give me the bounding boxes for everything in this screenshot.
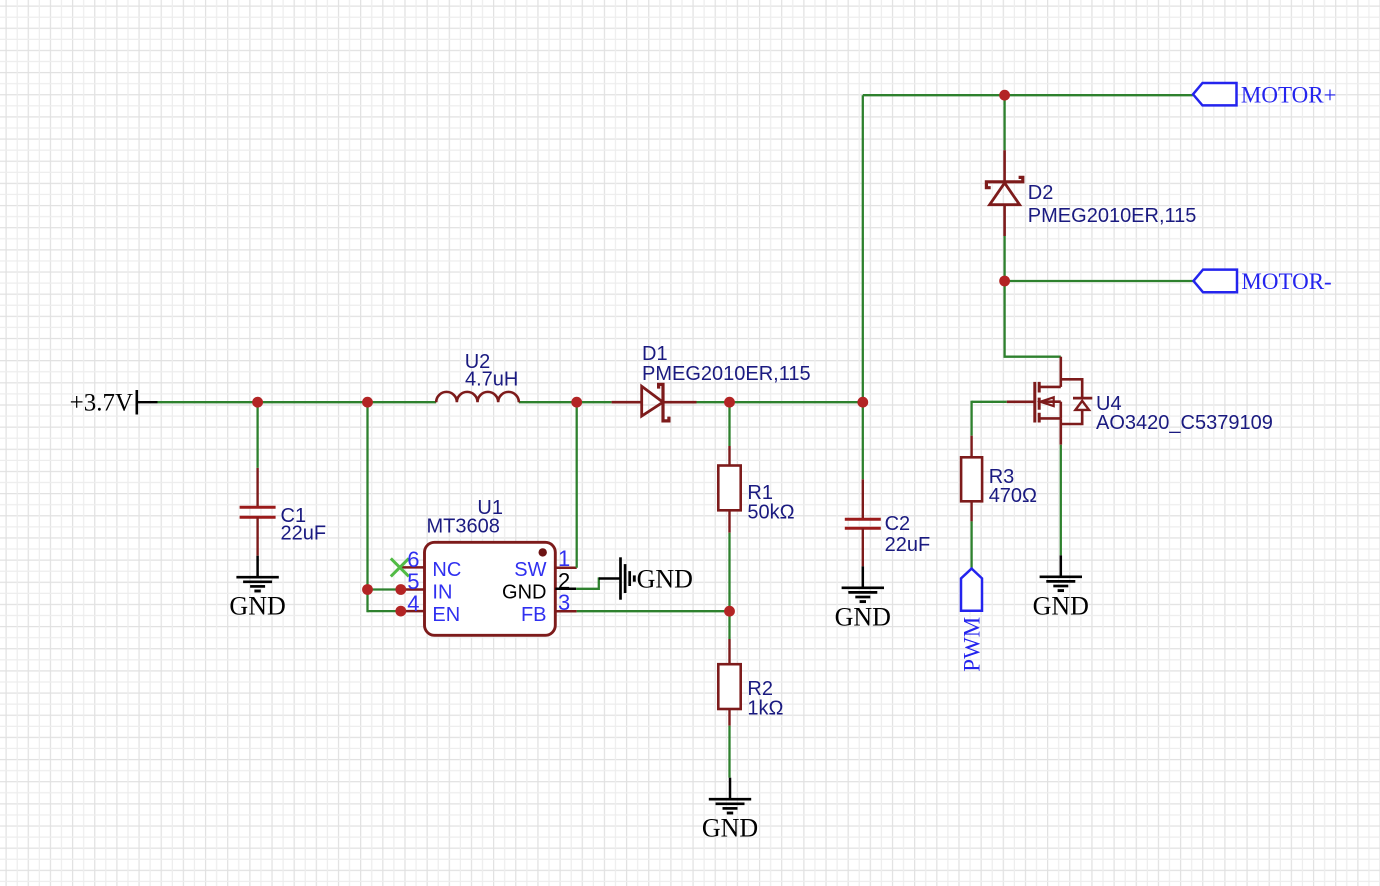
resistor R1 50k bbox=[718, 446, 740, 533]
svg-text:MT3608: MT3608 bbox=[427, 516, 500, 538]
wire VOUT to C2 bbox=[862, 402, 864, 479]
svg-text:22uF: 22uF bbox=[281, 523, 327, 545]
svg-text:SW: SW bbox=[514, 559, 546, 581]
svg-text:PWM: PWM bbox=[960, 617, 985, 672]
ground GND under C2 bbox=[835, 566, 891, 631]
net flag MOTOR- bbox=[1194, 269, 1332, 294]
svg-text:FB: FB bbox=[521, 604, 547, 626]
wire VOUT riser to top rail bbox=[862, 95, 864, 402]
svg-text:+3.7V: +3.7V bbox=[70, 390, 133, 417]
wire R1 to FB node bbox=[728, 533, 730, 612]
svg-text:3: 3 bbox=[558, 590, 570, 615]
svg-text:GND: GND bbox=[229, 592, 285, 621]
svg-text:EN: EN bbox=[432, 604, 460, 626]
pin 2 GND bbox=[555, 588, 576, 591]
svg-text:IN: IN bbox=[432, 581, 452, 603]
wire riser to U1 IN/EN bbox=[366, 402, 368, 612]
junction IN riser bbox=[362, 584, 373, 595]
junction U1 riser tap bbox=[362, 397, 373, 408]
pin 5 IN bbox=[400, 588, 425, 591]
wire +3.7V rail to L1 bbox=[158, 401, 437, 403]
svg-text:NC: NC bbox=[432, 559, 461, 581]
no-connect X pin 6 bbox=[391, 558, 409, 576]
wire R3 top bbox=[970, 401, 972, 436]
svg-text:MOTOR+: MOTOR+ bbox=[1241, 83, 1337, 108]
junction MOTOR+ node bbox=[999, 90, 1010, 101]
net flag PWM bbox=[960, 569, 985, 672]
junction SW tap bbox=[571, 397, 582, 408]
wire pin2 to GND flag bbox=[576, 579, 600, 589]
wire D1 cathode to C2/VOUT node bbox=[697, 401, 863, 403]
wire gate to R3 bbox=[972, 401, 1007, 403]
wire inductor to D1 bbox=[519, 401, 612, 403]
wire FB node to R2 bbox=[728, 611, 730, 639]
inductor U2 4.7uH bbox=[436, 392, 519, 402]
ground GND under U4 bbox=[1033, 555, 1089, 620]
wire to MOTOR- flag bbox=[1005, 280, 1194, 282]
svg-text:50kΩ: 50kΩ bbox=[747, 502, 794, 524]
junction pin 5 bbox=[395, 584, 406, 595]
svg-text:C2: C2 bbox=[885, 513, 911, 535]
diode D2 schottky bbox=[986, 150, 1022, 236]
power flag +3.7V bbox=[70, 390, 158, 417]
ground flag GND (pin 2) bbox=[599, 557, 693, 599]
junction VOUT node bbox=[857, 397, 868, 408]
wire C1 tap bbox=[256, 402, 258, 468]
wire MOTOR+ to D2 bbox=[1003, 95, 1005, 150]
pin 6 NC bbox=[400, 566, 425, 569]
svg-text:4.7uH: 4.7uH bbox=[465, 369, 518, 391]
wire to pin 5 IN bbox=[368, 588, 401, 590]
junction FB node bbox=[724, 606, 735, 617]
junction MOTOR- node bbox=[999, 276, 1010, 287]
transistor U4 AO3420 NMOS bbox=[1007, 357, 1093, 445]
capacitor C2 bbox=[845, 479, 881, 566]
wire D2 to MOTOR- node bbox=[1003, 236, 1005, 281]
junction R1 tap bbox=[724, 397, 735, 408]
svg-text:AO3420_C5379109: AO3420_C5379109 bbox=[1096, 412, 1273, 434]
svg-text:1: 1 bbox=[558, 546, 570, 571]
ground GND under C1 bbox=[229, 556, 285, 621]
svg-text:PMEG2010ER,115: PMEG2010ER,115 bbox=[642, 363, 811, 385]
wire MOTOR- node to U4 drain bbox=[1005, 281, 1061, 357]
capacitor C1 bbox=[240, 468, 276, 556]
pin 1 indicator dot bbox=[539, 548, 547, 556]
pin 4 EN bbox=[400, 610, 425, 613]
wire SW to inductor node bbox=[576, 402, 578, 568]
diode D1 schottky bbox=[612, 384, 697, 421]
svg-text:GND: GND bbox=[702, 814, 758, 843]
svg-text:MOTOR-: MOTOR- bbox=[1241, 269, 1331, 294]
resistor R3 470 bbox=[961, 436, 982, 522]
svg-text:GND: GND bbox=[1033, 591, 1089, 620]
wire VOUT to R1 bbox=[728, 402, 730, 446]
svg-text:D1: D1 bbox=[642, 343, 668, 365]
junction C1 tap bbox=[252, 397, 263, 408]
svg-text:22uF: 22uF bbox=[885, 534, 931, 556]
op-amp U1 MT3608 body bbox=[425, 542, 556, 635]
svg-text:GND: GND bbox=[637, 564, 693, 593]
svg-text:D2: D2 bbox=[1028, 182, 1054, 204]
pin 3 FB bbox=[555, 610, 576, 613]
wire FB to divider bbox=[577, 610, 730, 612]
svg-text:1kΩ: 1kΩ bbox=[747, 698, 783, 720]
wire to pin 4 EN bbox=[368, 610, 401, 612]
svg-text:GND: GND bbox=[835, 602, 891, 631]
svg-text:GND: GND bbox=[502, 581, 546, 603]
net flag MOTOR+ bbox=[1193, 83, 1337, 108]
svg-text:470Ω: 470Ω bbox=[989, 485, 1037, 507]
resistor R2 1k bbox=[718, 639, 740, 726]
wire top rail to MOTOR+ bbox=[863, 94, 1193, 96]
wire U4 source to ground bbox=[1060, 445, 1062, 556]
svg-text:4: 4 bbox=[407, 591, 419, 616]
wire R2 to ground bbox=[728, 726, 730, 778]
pin 1 SW bbox=[555, 567, 576, 570]
ground GND under R2 bbox=[702, 778, 758, 843]
wire R3 to PWM flag bbox=[970, 521, 972, 568]
junction pin 4 bbox=[395, 606, 406, 617]
svg-text:PMEG2010ER,115: PMEG2010ER,115 bbox=[1028, 205, 1197, 227]
